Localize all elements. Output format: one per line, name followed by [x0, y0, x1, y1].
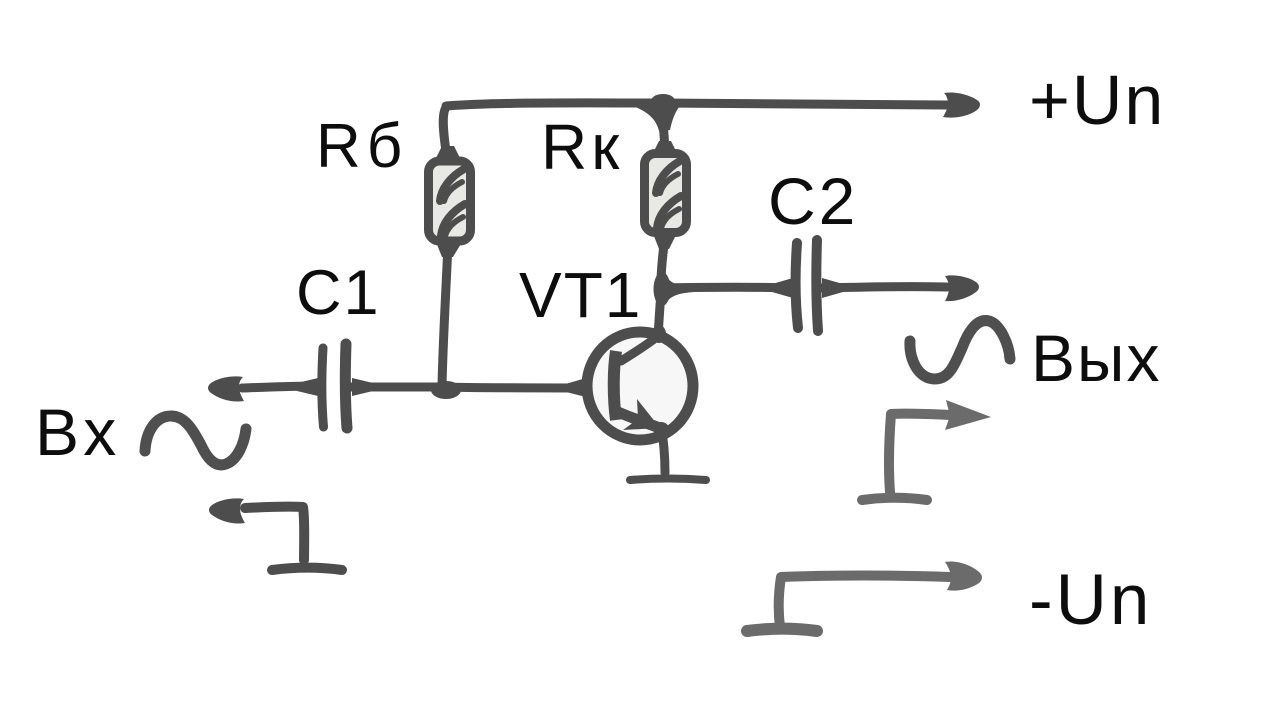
svg-text:Rк: Rк [541, 111, 623, 183]
svg-text:+Un: +Un [1029, 61, 1165, 139]
svg-text:Вх: Вх [35, 395, 121, 469]
svg-text:C2: C2 [768, 164, 858, 238]
svg-text:Вых: Вых [1031, 321, 1161, 395]
svg-text:Rб: Rб [316, 112, 408, 181]
svg-text:VT1: VT1 [519, 259, 642, 331]
svg-text:C1: C1 [296, 258, 381, 328]
svg-text:-Un: -Un [1029, 561, 1152, 640]
